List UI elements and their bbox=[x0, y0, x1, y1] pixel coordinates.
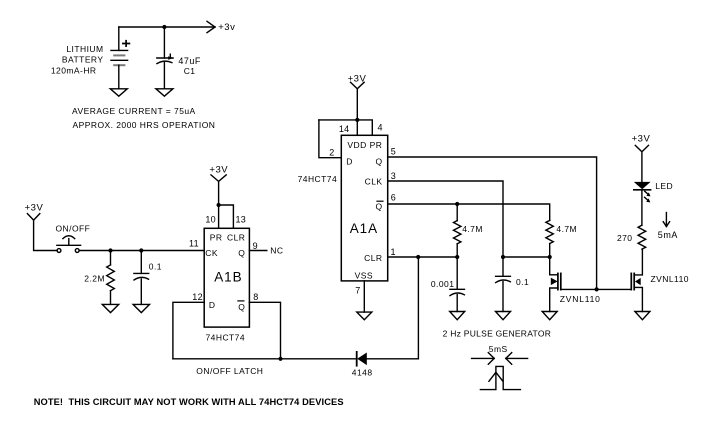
svg-text:5mS: 5mS bbox=[489, 344, 508, 354]
svg-text:0.1: 0.1 bbox=[516, 277, 529, 287]
svg-text:ON/OFF: ON/OFF bbox=[56, 223, 91, 233]
svg-text:14: 14 bbox=[339, 124, 350, 134]
svg-text:+3V: +3V bbox=[25, 203, 44, 214]
svg-text:LED: LED bbox=[655, 181, 673, 191]
svg-text:10: 10 bbox=[205, 215, 216, 225]
svg-text:4.7M: 4.7M bbox=[462, 224, 483, 234]
svg-text:6: 6 bbox=[391, 193, 396, 203]
svg-text:D: D bbox=[209, 300, 216, 310]
svg-text:CLR: CLR bbox=[227, 233, 245, 243]
svg-text:9: 9 bbox=[253, 241, 258, 251]
svg-text:ZVNL110: ZVNL110 bbox=[560, 294, 601, 304]
svg-text:8: 8 bbox=[253, 292, 258, 302]
svg-text:3: 3 bbox=[391, 171, 396, 181]
svg-text:A1B: A1B bbox=[214, 269, 242, 284]
svg-text:0.1: 0.1 bbox=[149, 262, 162, 272]
svg-text:Q: Q bbox=[375, 202, 382, 212]
svg-text:2.2M: 2.2M bbox=[84, 273, 105, 283]
svg-text:NC: NC bbox=[270, 246, 283, 256]
svg-text:47uF: 47uF bbox=[178, 56, 201, 66]
svg-text:7: 7 bbox=[355, 285, 360, 295]
svg-text:D: D bbox=[346, 157, 353, 167]
svg-text:VDD: VDD bbox=[347, 140, 366, 150]
svg-text:4148: 4148 bbox=[352, 368, 373, 378]
svg-text:1: 1 bbox=[391, 247, 396, 257]
svg-text:ON/OFF LATCH: ON/OFF LATCH bbox=[196, 366, 263, 376]
svg-text:+3V: +3V bbox=[348, 73, 367, 84]
svg-text:CK: CK bbox=[205, 248, 218, 258]
svg-text:ZVNL110: ZVNL110 bbox=[651, 274, 689, 284]
svg-text:APPROX. 2000 HRS OPERATION: APPROX. 2000 HRS OPERATION bbox=[73, 120, 216, 130]
svg-text:74HCT74: 74HCT74 bbox=[298, 174, 338, 184]
svg-text:4: 4 bbox=[378, 122, 383, 132]
svg-text:4.7M: 4.7M bbox=[556, 224, 577, 234]
svg-text:Q: Q bbox=[238, 302, 245, 312]
svg-text:+3V: +3V bbox=[632, 133, 651, 144]
svg-text:AVERAGE CURRENT = 75uA: AVERAGE CURRENT = 75uA bbox=[72, 106, 196, 116]
svg-text:CLR: CLR bbox=[364, 253, 382, 263]
svg-text:270: 270 bbox=[617, 233, 633, 243]
svg-text:Q: Q bbox=[375, 157, 382, 167]
svg-text:PR: PR bbox=[210, 233, 223, 243]
svg-text:13: 13 bbox=[236, 215, 247, 225]
svg-text:+3V: +3V bbox=[209, 165, 228, 176]
svg-text:11: 11 bbox=[189, 239, 199, 249]
svg-text:+3v: +3v bbox=[218, 22, 235, 33]
svg-text:2 Hz PULSE GENERATOR: 2 Hz PULSE GENERATOR bbox=[443, 328, 552, 338]
svg-text:5: 5 bbox=[391, 146, 396, 156]
svg-text:C1: C1 bbox=[184, 66, 196, 76]
svg-text:12: 12 bbox=[192, 292, 203, 302]
svg-text:120mA-HR: 120mA-HR bbox=[51, 66, 97, 76]
svg-text:NOTE! THIS CIRCUIT MAY NOT WO: NOTE! THIS CIRCUIT MAY NOT WORK WITH ALL… bbox=[34, 397, 344, 407]
svg-text:PR: PR bbox=[370, 140, 383, 150]
svg-text:0.001: 0.001 bbox=[431, 279, 455, 289]
svg-text:BATTERY: BATTERY bbox=[62, 55, 104, 65]
svg-text:Q: Q bbox=[238, 248, 245, 258]
svg-text:74HCT74: 74HCT74 bbox=[206, 333, 246, 343]
svg-text:5mA: 5mA bbox=[658, 230, 678, 240]
svg-text:VSS: VSS bbox=[355, 271, 373, 281]
svg-text:2: 2 bbox=[329, 147, 334, 157]
svg-text:CLK: CLK bbox=[365, 177, 383, 187]
svg-text:A1A: A1A bbox=[350, 221, 378, 236]
svg-text:LITHIUM: LITHIUM bbox=[66, 44, 103, 54]
